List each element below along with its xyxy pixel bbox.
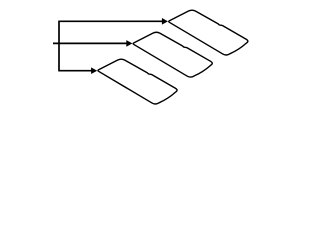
wire branch top — [58, 20, 164, 22]
node card 1 — [169, 10, 248, 55]
arrowhead 1 — [162, 18, 168, 25]
wire branch bottom — [58, 70, 93, 72]
arrowhead 3 — [91, 67, 97, 74]
wire trunk vertical — [58, 21, 60, 70]
wire branch middle — [53, 42, 129, 44]
node card 2 — [133, 32, 212, 77]
arrowhead 2 — [126, 40, 132, 47]
node card 3 — [98, 59, 177, 104]
